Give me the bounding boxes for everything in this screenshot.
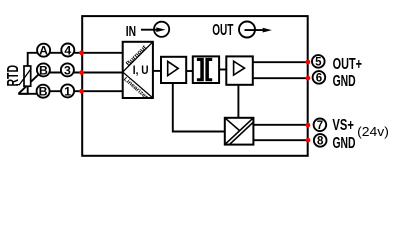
svg-text:GND: GND (333, 73, 356, 90)
svg-text:7: 7 (317, 120, 323, 132)
svg-text:I, U: I, U (133, 64, 149, 77)
svg-text:4: 4 (64, 43, 71, 57)
svg-text:A: A (39, 44, 48, 58)
svg-text:B: B (39, 85, 48, 99)
svg-text:1: 1 (64, 84, 71, 98)
svg-text:OUT: OUT (212, 22, 233, 39)
svg-text:GND: GND (333, 135, 356, 152)
svg-text:6: 6 (316, 73, 322, 85)
svg-text:(24v): (24v) (357, 124, 389, 139)
svg-text:VS+: VS+ (332, 117, 354, 134)
svg-text:8: 8 (317, 136, 324, 148)
svg-text:B: B (39, 63, 48, 77)
svg-text:5: 5 (315, 57, 322, 69)
svg-text:OUT+: OUT+ (333, 56, 362, 73)
svg-text:3: 3 (64, 63, 71, 77)
svg-text:IN: IN (126, 24, 136, 40)
